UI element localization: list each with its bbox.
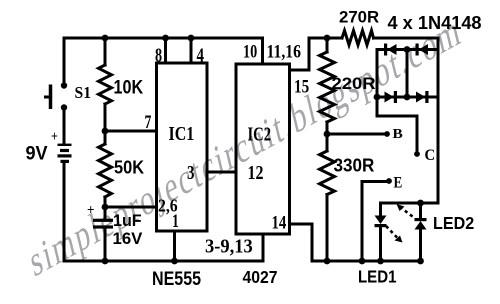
wire left vertical to switch [63,38,66,84]
resistor 270R zigzag [342,31,374,46]
battery B1 9V plates [58,144,72,163]
wire pin 4 stub [190,38,193,63]
wire node7 to 50K [104,131,107,144]
wire LED1 top stub [379,203,382,216]
terminal B dot [384,131,390,137]
wire node26 to capacitor [104,207,107,219]
LED1 symbol (points down) [375,216,387,228]
terminal C dot [414,151,420,157]
capacitor C1 plates [93,219,113,229]
diode D3 (bottom-left, points right) [385,91,398,103]
svg-text:1: 1 [172,210,179,232]
wire diode bridge left edge [376,50,379,117]
svg-text:12: 12 [248,161,264,183]
wire 330R to bottom rail [326,195,329,262]
wire terminal E [362,180,387,183]
svg-text:220R: 220R [332,74,376,93]
wire pin 8 stub [164,38,167,63]
svg-text:3-9,13: 3-9,13 [205,236,253,258]
svg-text:E: E [394,175,403,192]
wire pins 2,6 to IC1 [105,206,157,209]
resistor 50K zigzag [99,144,112,197]
svg-text:NE555: NE555 [152,268,201,290]
wire E to bottom rail [361,182,364,262]
switch S1 actuator [44,85,51,110]
svg-text:4027: 4027 [243,267,278,287]
svg-text:9V: 9V [26,142,49,164]
svg-text:C: C [425,148,436,164]
wire right rail vertical [437,38,440,203]
wire LED1 bottom stub [379,226,382,261]
wire LED2 top stub [419,203,422,219]
wire 220R top stub [326,38,329,52]
svg-text:+: + [87,202,95,218]
svg-text:11,16: 11,16 [267,41,302,61]
svg-text:+: + [51,128,58,145]
svg-text:3: 3 [187,161,195,184]
wire pin 7 to IC1 [105,130,157,133]
wire 50K bottom to node26 [104,197,107,207]
wire bottom rail left segment [64,260,263,263]
wire pin 1 stub [173,231,176,261]
wire 270R to right rail [374,37,439,40]
svg-text:50K: 50K [114,157,144,178]
diode D4 (bottom-right, points right) [416,91,429,103]
wire node B to 330R [326,134,329,151]
wire capacitor to bottom rail [104,229,107,262]
wire switch to battery [63,108,66,143]
LED light arrow up-left [397,204,413,217]
resistor R 10K zigzag [99,65,112,104]
svg-text:10K: 10K [114,76,144,98]
terminal E dot [386,178,392,184]
wire 220R bottom to node B [326,122,329,134]
junction node dots [102,35,424,265]
diode D1 (top-left, points left) [384,44,397,56]
wire pin 15 stub [290,38,310,70]
wire pin 14 to bottom rail [290,224,313,261]
svg-text:10: 10 [243,41,257,62]
wire battery to bottom rail [63,163,66,261]
svg-text:270R: 270R [339,8,379,27]
svg-text:14: 14 [272,212,287,233]
svg-text:8: 8 [155,44,162,66]
wire bridge center column [406,50,409,98]
wire pin 3 to pin 12 [207,171,236,174]
IC U1 NE555 box [157,63,208,231]
wire bridge to terminal C [377,116,417,152]
svg-text:330R: 330R [334,155,375,176]
svg-text:LED1: LED1 [358,268,396,287]
svg-text:IC2: IC2 [248,124,272,145]
IC U2 4027 box [236,64,290,234]
wire node B to terminal B [327,133,386,136]
resistor 330R zigzag [320,151,335,195]
svg-text:B: B [393,127,403,142]
svg-text:4: 4 [197,43,205,66]
wire 10K top stub [104,38,107,65]
wire top rail left segment [64,37,263,40]
diode D2 (top-right, points left) [416,44,429,56]
switch S1 contacts [61,82,67,110]
svg-text:1uF: 1uF [113,212,142,230]
wire IC2 ground riser pins 3-9,13 [262,234,265,261]
wire top rail right segment [309,37,342,40]
LED2 symbol (points up) [415,218,427,230]
svg-text:15: 15 [294,76,309,97]
wire 10K bottom to node7 [104,104,107,131]
svg-text:IC1: IC1 [169,123,195,145]
svg-text:S1: S1 [75,82,92,102]
LED light arrow down-right [386,226,403,243]
svg-text:7: 7 [145,111,152,133]
wire bridge bottom row [377,96,438,99]
wire bottom rail right segment [312,260,421,263]
wire bridge top row [377,48,438,51]
svg-text:LED2: LED2 [433,213,474,233]
wire top rail drop to IC2 top pins 10,11,16 [261,38,264,64]
resistor 220R zigzag [320,52,335,122]
svg-text:16V: 16V [113,229,144,248]
wire LED top row [381,202,439,205]
wire LED2 bottom stub [419,229,422,262]
svg-text:4 x 1N4148: 4 x 1N4148 [388,13,482,33]
